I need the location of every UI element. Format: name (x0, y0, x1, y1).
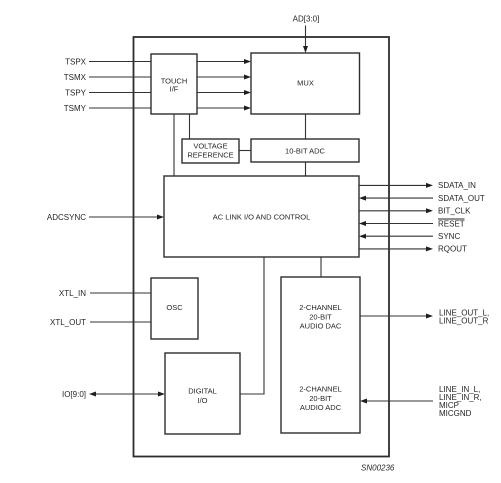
wire TSMY (89, 107, 151, 109)
wire SDATA_OUT (359, 196, 433, 201)
svg-text:SN00236: SN00236 (361, 463, 395, 472)
wire ADCSYNC into AC LINK (89, 215, 164, 220)
svg-text:RQOUT: RQOUT (438, 245, 467, 254)
wire RQOUT (359, 246, 433, 251)
wire TOUCH to MUX 4 (197, 106, 251, 111)
label LINE_IN_L, LINE_IN_R, MICP, MICGND (439, 385, 482, 418)
label TSPY (65, 88, 87, 97)
svg-text:SYNC: SYNC (438, 232, 460, 241)
block MUX (251, 53, 360, 114)
wire LINE_IN (360, 399, 433, 404)
svg-text:MICGND: MICGND (439, 409, 472, 418)
label SYNC (438, 232, 460, 241)
wire IO[9:0] bidirectional (89, 392, 165, 397)
wire TOUCH to VOLTAGE REFERENCE (189, 114, 191, 139)
svg-text:TSMY: TSMY (64, 104, 87, 113)
label SN00236 (361, 463, 395, 472)
wire RESET (359, 221, 433, 226)
wire XTL_IN (90, 292, 151, 294)
svg-text:AD[3:0]: AD[3:0] (293, 15, 320, 24)
wire XTL_OUT (90, 321, 151, 323)
svg-text:VOLTAGE: VOLTAGE (193, 142, 227, 151)
wire AD[3:0] into MUX (303, 26, 308, 54)
wire ADC to AC LINK (305, 162, 307, 176)
svg-text:20-BIT: 20-BIT (309, 312, 332, 321)
svg-text:REFERENCE: REFERENCE (187, 150, 233, 159)
svg-text:MUX: MUX (297, 78, 314, 87)
label SDATA_OUT (438, 194, 485, 203)
svg-text:TSPX: TSPX (65, 57, 87, 66)
svg-text:BIT_CLK: BIT_CLK (438, 207, 471, 216)
wire MUX to ADC (305, 114, 307, 139)
svg-text:SDATA_IN: SDATA_IN (438, 181, 476, 190)
label SDATA_IN (438, 181, 476, 190)
wire VREF to ADC (239, 150, 251, 152)
svg-text:LINE_OUT_R: LINE_OUT_R (439, 317, 489, 326)
label XTL_OUT (50, 318, 86, 327)
svg-text:OSC: OSC (166, 303, 183, 312)
label TSMX (64, 73, 87, 82)
svg-text:AUDIO DAC: AUDIO DAC (300, 322, 342, 331)
block 2-CHANNEL 20-BIT AUDIO DAC / ADC (281, 277, 360, 433)
label RQOUT (438, 245, 467, 254)
svg-text:TSPY: TSPY (65, 88, 87, 97)
label RESET (active low, overlined) (438, 219, 465, 228)
wire SYNC (359, 234, 433, 239)
wire TOUCH to MUX 1 (197, 59, 251, 64)
wire TOUCH to MUX 3 (197, 90, 251, 95)
wire SDATA_IN (359, 183, 433, 188)
label AD[3:0] (293, 15, 320, 24)
svg-text:20-BIT: 20-BIT (309, 394, 332, 403)
wire TOUCH to MUX 2 (197, 75, 251, 80)
label ADCSYNC (47, 213, 86, 222)
svg-text:SDATA_OUT: SDATA_OUT (438, 194, 485, 203)
svg-text:10-BIT ADC: 10-BIT ADC (285, 146, 325, 155)
wire TSPY (89, 92, 151, 94)
svg-text:XTL_OUT: XTL_OUT (50, 318, 86, 327)
wire TSMX (89, 76, 151, 78)
wire AC LINK to DIGITAL I/O (240, 257, 264, 394)
label TSMY (64, 104, 87, 113)
wire BIT_CLK (359, 208, 433, 213)
block DIGITAL I/O (165, 353, 240, 434)
svg-text:ADCSYNC: ADCSYNC (47, 213, 86, 222)
svg-text:XTL_IN: XTL_IN (59, 289, 86, 298)
svg-text:IO[9:0]: IO[9:0] (62, 390, 86, 399)
svg-text:DIGITAL: DIGITAL (188, 387, 217, 396)
label TSPX (65, 57, 87, 66)
svg-text:2-CHANNEL: 2-CHANNEL (299, 303, 342, 312)
svg-text:RESET: RESET (438, 219, 465, 228)
label XTL_IN (59, 289, 86, 298)
wire TSPX (89, 61, 151, 63)
outer chip boundary (134, 37, 390, 457)
svg-text:AC LINK I/O AND CONTROL: AC LINK I/O AND CONTROL (213, 213, 311, 222)
block TOUCH I/F (151, 54, 197, 114)
block 10-BIT ADC (251, 139, 359, 162)
wire TOUCH to AC LINK (173, 114, 175, 176)
wire LINE_OUT (360, 314, 433, 319)
svg-text:I/O: I/O (197, 396, 207, 405)
label LINE_OUT_L, LINE_OUT_R (439, 309, 489, 326)
svg-text:2-CHANNEL: 2-CHANNEL (299, 385, 342, 394)
block VOLTAGE REFERENCE (182, 139, 239, 163)
label IO[9:0] (62, 390, 86, 399)
block OSC (151, 278, 198, 339)
svg-text:AUDIO ADC: AUDIO ADC (300, 403, 342, 412)
wire AC LINK to AUDIO block (320, 257, 322, 277)
label BIT_CLK (438, 207, 471, 216)
svg-text:TSMX: TSMX (64, 73, 87, 82)
svg-text:I/F: I/F (170, 85, 179, 94)
block AC LINK I/O AND CONTROL (164, 176, 359, 257)
